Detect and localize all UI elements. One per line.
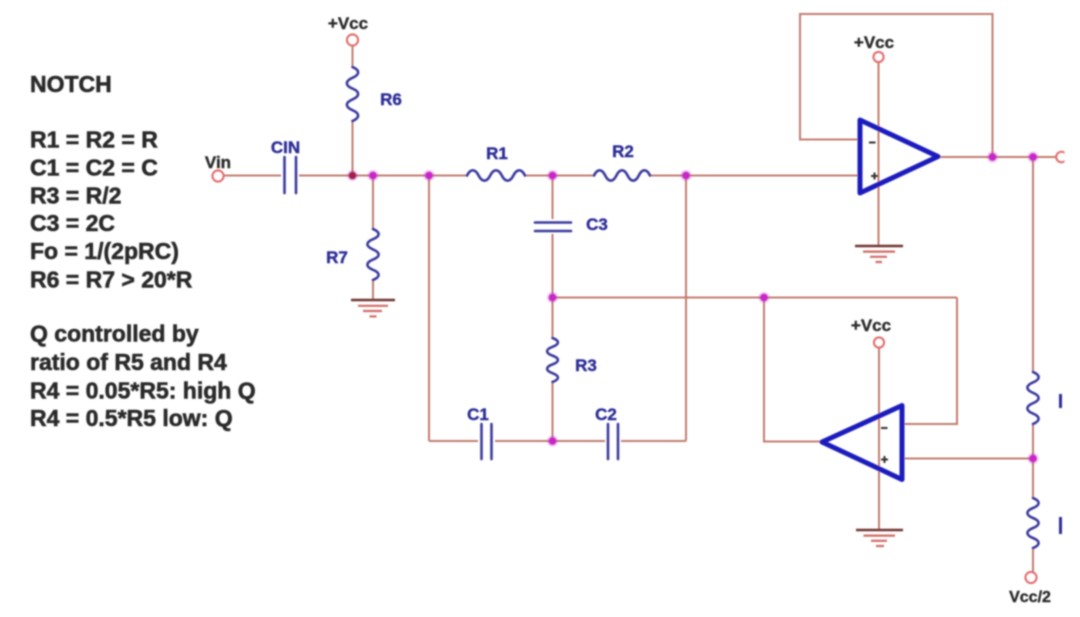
svg-text:R1: R1 [486,144,508,163]
svg-text:Q controlled by: Q controlled by [30,321,199,347]
wire op-amp U2 Vcc to ground through symbol [878,348,880,529]
svg-text:ratio of R5 and R4: ratio of R5 and R4 [30,349,227,375]
wire C3 to node B [552,234,554,298]
svg-text:+Vcc: +Vcc [328,14,368,33]
wire CIN to R1 [299,175,467,177]
ground below op-amp U1 [855,246,903,262]
svg-text:Vcc/2: Vcc/2 [1009,589,1051,606]
svg-text:+Vcc: +Vcc [854,33,894,52]
svg-text:C3: C3 [586,215,608,234]
node C R5/R4 [1029,455,1037,463]
wire mid horizontal net [553,297,958,299]
wires group [224,14,1056,572]
wire R7 to ground [372,280,374,299]
node after R1 / C3 [549,172,557,180]
capacitor C2 plates [607,424,610,459]
svg-text:R3: R3 [575,356,597,375]
svg-text:R3 = R/2: R3 = R/2 [30,183,121,209]
wire R3 to bottom node [552,382,554,441]
black labels [205,14,1051,606]
left text block [30,71,256,431]
wire C2 to right loop [621,440,686,442]
svg-text:R1 = R2 = R: R1 = R2 = R [30,127,158,153]
svg-text:R4 = 0.5*R5 low: Q: R4 = 0.5*R5 low: Q [30,405,233,431]
node after R2 [682,172,690,180]
navy component labels [271,90,634,424]
wire op-amp U2 plus input [903,458,1033,460]
svg-text:C1: C1 [467,405,489,424]
wire node B to R3 [552,298,554,339]
terminal +Vcc U2 [874,338,884,348]
terminal Vin [213,171,224,182]
svg-text:Vin: Vin [205,153,231,172]
node left loop [425,172,433,180]
wire output node down to R5 [1032,157,1034,372]
terminal +Vcc top [347,35,358,46]
resistor R5 [1027,372,1038,424]
wire R2 to op-amp U1 plus input [650,175,861,177]
resistor R7 [367,229,378,280]
wire op-amp U1 Vcc to ground through symbol [878,63,880,245]
capacitor C3 plates [535,221,571,224]
wire op-amp U2 minus feedback [903,298,957,425]
label R5 clipped stem [1059,394,1062,408]
components navy [285,67,1039,548]
terminals [213,35,1067,584]
wire node to C3 [552,176,554,220]
wire bottom to C1 [429,440,478,442]
svg-text:R2: R2 [612,142,634,161]
svg-text:C1 = C2 = C: C1 = C2 = C [30,155,158,181]
svg-text:Fo = 1/(2pRC): Fo = 1/(2pRC) [30,238,179,264]
ground below R7 [351,300,395,316]
wire node C to R4 [1032,459,1034,499]
svg-text:R6 = R7 > 20*R: R6 = R7 > 20*R [30,267,193,293]
wire R6 to node [352,121,354,176]
node B C3/R3 [549,294,557,302]
wire C1 to C2 [495,440,605,442]
ground below op-amp U2 [856,530,903,546]
svg-text:NOTCH: NOTCH [30,71,112,97]
node output/R5 [1029,153,1037,161]
capacitor C1 plates [480,424,483,459]
capacitor CIN plates [283,157,286,193]
wire left loop vertical [428,176,430,442]
svg-text:C3 = 2C: C3 = 2C [30,210,115,236]
node after R6 [349,172,357,180]
terminal output (clipped at image crop) [1056,152,1066,162]
label R4 clipped stem [1059,517,1062,534]
wire +Vcc to R6 [352,46,354,67]
resistor R2 [594,170,650,180]
wire Vin to CIN [224,175,281,177]
resistor R3 [547,338,558,382]
resistor R1 [467,170,525,180]
wire R5 to node C [1032,424,1034,459]
wire op-amp U2 output riser [764,298,821,442]
svg-text:CIN: CIN [271,138,300,157]
node U1 feedback [989,153,997,161]
node op2 output [760,294,768,302]
svg-text:R7: R7 [326,248,348,267]
node to R7 [369,172,377,180]
wire node to R7 [372,176,374,230]
svg-text:+Vcc: +Vcc [851,316,891,335]
svg-text:R4 = 0.05*R5: high Q: R4 = 0.05*R5: high Q [30,378,256,404]
resistor R6 [347,67,358,121]
node bottom C1/C2 [549,437,557,445]
op-amp U2 [822,406,902,480]
wire R1 to R2 [525,175,594,177]
wire R4 to Vcc/2 terminal [1032,548,1034,572]
wire op-amp U1 output [937,156,1056,158]
svg-text:R6: R6 [380,90,402,109]
resistor R4 [1027,498,1038,548]
svg-text:C2: C2 [595,405,617,424]
wire right loop vertical [685,176,687,442]
wire op-amp U1 minus feedback box [800,14,993,157]
terminal +Vcc U1 [874,52,884,62]
terminal Vcc/2 [1026,572,1037,583]
op-amp U1 [860,120,938,193]
